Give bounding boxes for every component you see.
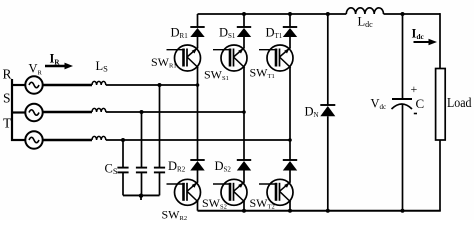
diode DT2 <box>283 160 297 171</box>
switch SWT2 <box>259 179 293 205</box>
inductor Ls (phase R) <box>92 81 106 85</box>
node: Cs tap on phase T <box>121 138 125 142</box>
wire: Ls to bridge leg S <box>106 111 244 113</box>
wire: leg 1 middle <box>197 68 199 161</box>
wire: load branch top <box>439 13 441 68</box>
wire: Ls to bridge leg R <box>106 84 198 86</box>
switch SWS1 <box>213 45 247 71</box>
node: phase 2 joins leg <box>242 110 246 114</box>
wire: source R to Ls <box>43 84 92 86</box>
wire: DN branch bottom <box>327 116 329 211</box>
AC source S <box>25 104 42 121</box>
node: bottom bus junction <box>242 209 246 213</box>
wire: leg 2 top bus to DS1 <box>243 14 245 27</box>
inductor Ls (phase S) <box>92 108 106 112</box>
svg-text:+: + <box>411 82 418 96</box>
AC source T <box>25 131 42 148</box>
wire: neutral to source S <box>11 111 26 113</box>
wire: DS1 to SWS1 <box>243 37 245 48</box>
wire: neutral to source T <box>11 139 26 141</box>
wire: leg 3 top bus to DT1 <box>289 14 291 27</box>
neutral vertical wire <box>11 79 13 141</box>
wire: DR2 to SWR2 <box>197 171 199 183</box>
arrow IR <box>45 63 73 70</box>
wire: leg 1 to bottom bus <box>197 202 199 211</box>
wire: neutral to source R <box>11 84 26 86</box>
wire: Cs to common <box>141 172 143 195</box>
switch SWR2 <box>167 179 201 205</box>
wire: leg 3 to bottom bus <box>289 202 291 211</box>
wire: DT2 to SWT2 <box>289 171 291 183</box>
wire: top bus (right of Ldc) <box>384 13 441 15</box>
node: top bus junction <box>326 12 330 16</box>
node: top bus junction <box>401 12 405 16</box>
node: bottom bus junction <box>401 209 405 213</box>
wire: source S to Ls <box>43 111 92 113</box>
diode DN <box>320 105 335 116</box>
inductor Ls (phase T) <box>92 136 106 140</box>
label minus <box>414 113 417 115</box>
node: Cs tap on phase R <box>158 83 162 87</box>
wire: top bus (left of Ldc) <box>198 13 347 15</box>
node: Cs tap on phase S <box>140 110 144 114</box>
inductor Ldc <box>346 8 383 14</box>
wire: DR1 to SWR1 <box>197 37 199 48</box>
diode DS1 <box>237 27 251 37</box>
wire: bottom bus <box>198 210 441 212</box>
diode DT1 <box>283 27 297 37</box>
wire: Cs to common <box>122 172 124 195</box>
load resistor <box>436 69 446 141</box>
wire: phase T down to Cs <box>122 140 124 168</box>
svg-text:T: T <box>3 116 12 131</box>
wire: leg 1 top bus to DR1 <box>197 14 199 27</box>
wire: phase R down to Cs <box>159 85 161 168</box>
switch SWT1 <box>259 45 293 71</box>
wire: phase S down to Cs <box>141 112 143 168</box>
capacitor C (curved plate) <box>392 104 413 109</box>
diode DR2 <box>190 160 204 171</box>
svg-text:R: R <box>3 67 12 82</box>
svg-text:C: C <box>416 96 425 111</box>
node: Cs common junction <box>139 194 143 198</box>
node: top bus junction <box>242 12 246 16</box>
wire: cap branch bottom <box>402 104 404 210</box>
wire: load to bottom bus <box>439 140 441 211</box>
node: phase 3 joins leg <box>288 138 292 142</box>
wire: source T to Ls <box>43 139 92 141</box>
node: top bus junction <box>288 12 292 16</box>
AC source R <box>25 76 42 93</box>
wire: Ls to bridge leg T <box>106 139 290 141</box>
node: bottom bus junction <box>288 209 292 213</box>
capacitor Cs (phase S) <box>136 167 147 169</box>
switch SWS2 <box>213 179 247 205</box>
svg-text:S: S <box>3 91 11 106</box>
diode DR1 <box>190 27 204 37</box>
diode DS2 <box>237 160 251 171</box>
wire: Cs common bottom <box>123 194 160 196</box>
wire: DS2 to SWS2 <box>243 171 245 183</box>
node: bottom bus junction <box>326 209 330 213</box>
capacitor Cs (phase R) <box>154 167 165 169</box>
wire: cap branch top <box>402 14 404 99</box>
wire: leg 3 middle <box>289 68 291 161</box>
wire: Cs to common <box>159 172 161 195</box>
node: phase 1 joins leg <box>196 83 200 87</box>
capacitor C (top plate) <box>392 98 412 100</box>
wire: leg 2 to bottom bus <box>243 202 245 211</box>
svg-text:Load: Load <box>447 96 472 111</box>
switch SWR1 <box>167 45 201 71</box>
wire: DN branch top <box>327 14 329 105</box>
wire: DT1 to SWT1 <box>289 37 291 48</box>
arrow Idc <box>414 39 438 45</box>
wire: leg 2 middle <box>243 68 245 161</box>
capacitor Cs (phase T) <box>117 167 128 169</box>
